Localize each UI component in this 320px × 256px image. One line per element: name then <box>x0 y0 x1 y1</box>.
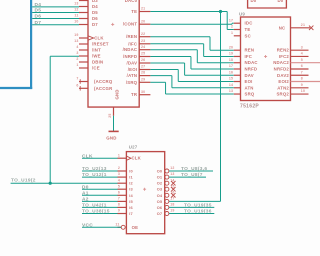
svg-text:25: 25 <box>141 52 145 56</box>
svg-text:O0: O0 <box>157 169 163 174</box>
svg-text:GND: GND <box>106 135 116 140</box>
svg-text:D7: D7 <box>92 22 98 27</box>
svg-text:ATN: ATN <box>245 85 254 90</box>
svg-text:3: 3 <box>76 51 78 55</box>
svg-text:3: 3 <box>118 172 120 176</box>
svg-text:29: 29 <box>141 77 145 81</box>
svg-text:O4: O4 <box>157 193 163 198</box>
svg-text:18: 18 <box>170 203 174 207</box>
svg-text:6: 6 <box>118 190 120 194</box>
svg-text:/EOI: /EOI <box>128 67 137 72</box>
svg-text:10: 10 <box>74 20 78 24</box>
svg-text:9: 9 <box>301 83 303 87</box>
svg-text:8: 8 <box>118 203 120 207</box>
svg-text:/ATN: /ATN <box>127 73 138 78</box>
svg-text:DAV: DAV <box>245 73 254 78</box>
svg-text:11: 11 <box>74 14 78 18</box>
svg-text:I6: I6 <box>129 205 133 210</box>
svg-text:NDAC2: NDAC2 <box>273 60 289 65</box>
svg-text:EOI: EOI <box>245 79 253 84</box>
svg-text:REN2: REN2 <box>277 48 290 53</box>
svg-text:D5: D5 <box>92 10 98 15</box>
svg-text:1: 1 <box>118 153 120 157</box>
svg-text:28: 28 <box>141 71 145 75</box>
svg-text:5: 5 <box>118 184 120 188</box>
svg-text:A2: A2 <box>82 197 89 203</box>
svg-text:17: 17 <box>229 18 233 22</box>
svg-text:7: 7 <box>118 197 120 201</box>
svg-text:TE: TE <box>245 27 251 32</box>
svg-text:19: 19 <box>74 33 78 37</box>
svg-text:5: 5 <box>301 58 303 62</box>
svg-text:13: 13 <box>74 39 78 43</box>
svg-text:22: 22 <box>141 32 145 36</box>
svg-text:D5: D5 <box>35 8 42 14</box>
svg-text:/NDAC: /NDAC <box>123 47 138 52</box>
svg-text:/CONT: /CONT <box>123 22 138 27</box>
svg-text:O5: O5 <box>157 199 163 204</box>
svg-text:I4: I4 <box>129 193 133 198</box>
svg-text:25: 25 <box>108 114 112 118</box>
svg-text:ATN2: ATN2 <box>277 85 289 90</box>
svg-text:A1: A1 <box>82 190 89 196</box>
svg-text:18: 18 <box>229 58 233 62</box>
svg-text:19: 19 <box>170 209 174 213</box>
svg-text:24: 24 <box>141 45 145 49</box>
svg-text:14: 14 <box>229 83 233 87</box>
svg-text:IFC2: IFC2 <box>279 54 290 59</box>
svg-text:D4: D4 <box>35 2 42 8</box>
svg-text:NDAC: NDAC <box>245 60 258 65</box>
svg-text:CLK: CLK <box>82 153 93 159</box>
svg-text:13: 13 <box>229 89 233 93</box>
svg-text:TO_U2(13: TO_U2(13 <box>82 166 107 172</box>
svg-text:I7: I7 <box>129 211 133 216</box>
svg-text:1: 1 <box>231 31 233 35</box>
svg-text:I3: I3 <box>129 187 133 192</box>
svg-text:17: 17 <box>170 197 174 201</box>
svg-text:20: 20 <box>229 45 233 49</box>
svg-text:CLK: CLK <box>94 36 104 41</box>
svg-text:12: 12 <box>170 166 174 170</box>
svg-text:/DAV: /DAV <box>126 61 137 66</box>
svg-text:D6: D6 <box>92 16 98 21</box>
svg-text:4: 4 <box>118 178 120 182</box>
svg-text:13: 13 <box>170 172 174 176</box>
svg-text:OE: OE <box>132 225 139 230</box>
svg-text:20: 20 <box>141 19 145 23</box>
svg-text:DAV2: DAV2 <box>277 73 289 78</box>
svg-text:VCC: VCC <box>82 222 93 228</box>
svg-text:TO_U8(3,6: TO_U8(3,6 <box>181 166 207 172</box>
svg-text:I1: I1 <box>129 175 133 180</box>
svg-text:NRFD: NRFD <box>245 66 258 71</box>
svg-text:12: 12 <box>74 8 78 12</box>
svg-text:O3: O3 <box>157 187 163 192</box>
svg-text:10: 10 <box>301 89 305 93</box>
svg-text:TO_U19(35: TO_U19(35 <box>184 202 212 208</box>
svg-text:IDC: IDC <box>245 21 253 26</box>
svg-text:O6: O6 <box>157 205 163 210</box>
svg-text:U27: U27 <box>129 145 138 150</box>
svg-text:2: 2 <box>76 57 78 61</box>
svg-text:U9: U9 <box>239 11 245 16</box>
svg-text:O1: O1 <box>157 175 163 180</box>
svg-text:TO_U19(36: TO_U19(36 <box>184 209 212 215</box>
svg-text:1: 1 <box>76 63 78 67</box>
svg-text:/NRFD: /NRFD <box>123 54 137 59</box>
svg-text:6: 6 <box>301 64 303 68</box>
svg-text:D4: D4 <box>92 4 98 9</box>
svg-text:IFC: IFC <box>245 54 253 59</box>
svg-text:TO_U12(1: TO_U12(1 <box>82 172 107 178</box>
svg-text:/IFC: /IFC <box>128 41 137 46</box>
svg-text:27: 27 <box>141 65 145 69</box>
svg-text:D7: D7 <box>35 20 42 26</box>
svg-text:D3: D3 <box>92 0 98 3</box>
svg-text:2: 2 <box>231 25 233 29</box>
svg-text:2: 2 <box>118 166 120 170</box>
svg-text:16: 16 <box>229 70 233 74</box>
svg-text:NRFD2: NRFD2 <box>274 66 290 71</box>
svg-text:(ACCRQ: (ACCRQ <box>94 79 113 84</box>
svg-text:GND: GND <box>114 89 119 99</box>
svg-text:/RESET: /RESET <box>92 42 109 47</box>
svg-text:EOI2: EOI2 <box>278 79 289 84</box>
svg-text:D6: D6 <box>35 14 42 20</box>
svg-text:19: 19 <box>229 52 233 56</box>
svg-text:D0: D0 <box>82 184 89 190</box>
svg-text:15: 15 <box>229 77 233 81</box>
svg-text:/INT: /INT <box>92 48 101 53</box>
svg-text:17: 17 <box>229 64 233 68</box>
svg-text:21: 21 <box>141 7 145 11</box>
svg-text:30: 30 <box>141 90 145 94</box>
svg-text:O2: O2 <box>157 181 163 186</box>
svg-text:4: 4 <box>76 45 78 49</box>
svg-text:11: 11 <box>115 222 119 226</box>
svg-text:I0: I0 <box>129 169 133 174</box>
svg-text:D0: D0 <box>251 0 257 3</box>
svg-text:CLK: CLK <box>132 156 142 161</box>
svg-text:21: 21 <box>301 23 305 27</box>
svg-text:TO_U19(2: TO_U19(2 <box>11 177 36 183</box>
svg-text:D0: D0 <box>278 0 284 3</box>
svg-text:23: 23 <box>141 39 145 43</box>
svg-text:TO_U42(1: TO_U42(1 <box>82 203 107 209</box>
svg-text:(ACCGR: (ACCGR <box>94 86 113 91</box>
svg-text:3: 3 <box>301 45 303 49</box>
svg-text:NC: NC <box>279 25 286 30</box>
svg-text:TO_U38(15: TO_U38(15 <box>82 209 110 215</box>
svg-text:I5: I5 <box>129 199 133 204</box>
svg-text:/CE: /CE <box>92 66 100 71</box>
svg-text:SRQ2: SRQ2 <box>276 92 289 97</box>
svg-text:SC: SC <box>245 33 251 38</box>
svg-text:13: 13 <box>74 2 78 6</box>
svg-text:7: 7 <box>301 70 303 74</box>
svg-text:75162P: 75162P <box>240 103 259 109</box>
svg-text:9: 9 <box>118 209 120 213</box>
svg-text:7: 7 <box>76 77 78 81</box>
svg-text:SRQ: SRQ <box>245 92 255 97</box>
svg-text:8: 8 <box>301 77 303 81</box>
svg-text:DBIN: DBIN <box>92 60 103 65</box>
svg-text:26: 26 <box>141 58 145 62</box>
svg-text:/REN: /REN <box>126 34 137 39</box>
svg-text:I2: I2 <box>129 181 133 186</box>
svg-text:REN: REN <box>245 48 255 53</box>
svg-text:6: 6 <box>76 83 78 87</box>
svg-text:TR: TR <box>131 92 138 97</box>
svg-text:DAC0: DAC0 <box>125 0 138 3</box>
svg-text:TE: TE <box>131 9 137 14</box>
svg-text:4: 4 <box>301 52 303 56</box>
svg-text:/SRQ: /SRQ <box>126 80 138 85</box>
svg-text:TO_U8(7: TO_U8(7 <box>181 172 203 178</box>
svg-text:O7: O7 <box>157 211 163 216</box>
svg-text:/WE: /WE <box>92 54 101 59</box>
